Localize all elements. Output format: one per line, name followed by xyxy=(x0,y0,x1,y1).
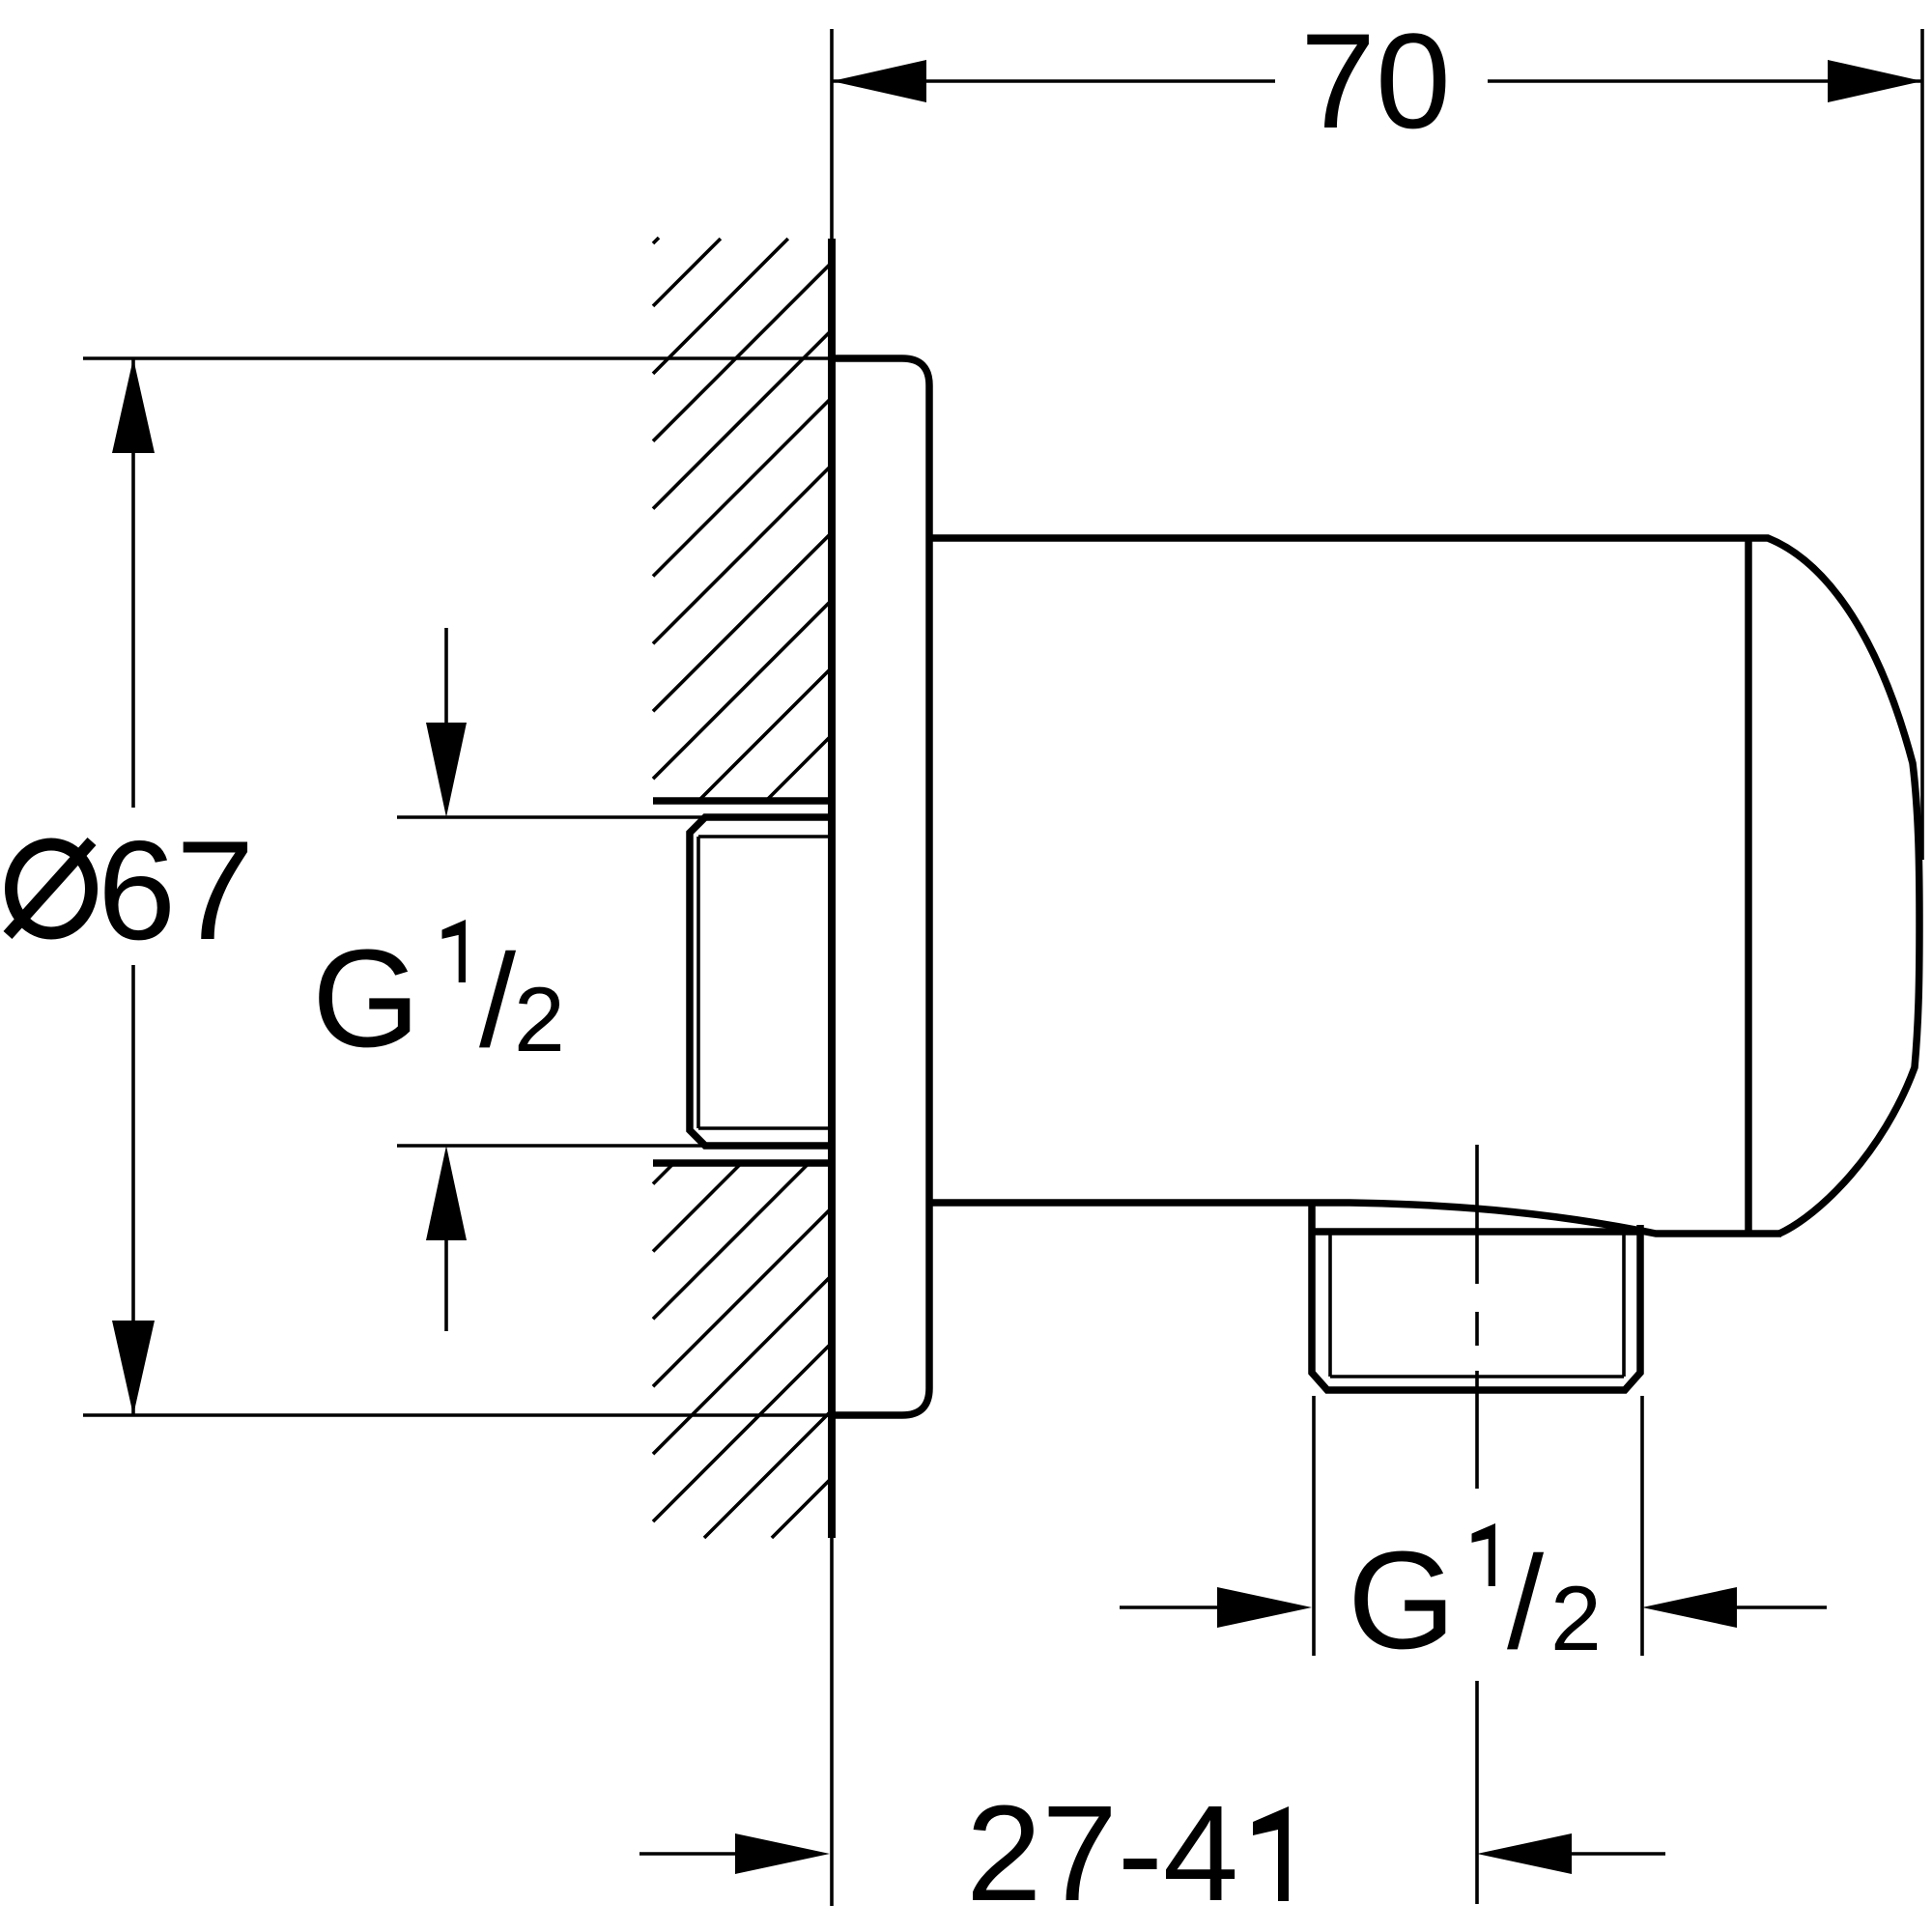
svg-text:67: 67 xyxy=(98,811,254,969)
svg-text:G: G xyxy=(312,921,420,1076)
svg-text:2: 2 xyxy=(514,969,565,1071)
svg-text:/: / xyxy=(1507,1529,1545,1677)
svg-text:27-4: 27-4 xyxy=(966,1776,1238,1929)
svg-text:G: G xyxy=(1348,1522,1456,1678)
svg-text:70: 70 xyxy=(1300,5,1451,156)
svg-text:/: / xyxy=(479,927,517,1075)
svg-text:2: 2 xyxy=(1550,1568,1602,1670)
